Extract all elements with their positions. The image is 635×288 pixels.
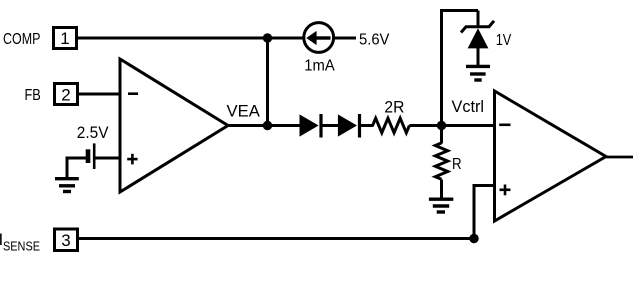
diode D2 [338,114,360,138]
svg-text:2R: 2R [384,99,404,117]
zener diode D3 triangle [468,28,489,48]
battery V1 2.5V positive plate [93,143,96,169]
wire ISENSE to op-amp U2 plus input [79,237,474,240]
wire op-amp U2 output [606,156,633,159]
wire zener anode to ground [477,48,480,65]
op-amp U1 error amplifier triangle [120,59,228,192]
battery V1 negative plate [86,149,91,163]
node junction dot ISENSE [469,234,478,243]
wire FB to op-amp inverting input [79,93,120,96]
wire VEA output to diode D1 [226,124,301,127]
pin label ISENSE [0,230,40,253]
wire COMP to current source [78,37,303,40]
svg-text:2.5V: 2.5V [77,124,109,142]
wire battery to ground [67,158,87,178]
svg-text:5.6V: 5.6V [359,32,390,49]
wire Vctrl down to resistor R [440,126,443,144]
svg-text:1: 1 [60,29,69,48]
node junction dot VEA [263,121,272,130]
current source I1 arrow [306,31,330,45]
wire R to ground [440,180,443,199]
svg-text:2: 2 [61,86,70,105]
pin 2 box [55,84,78,105]
svg-text:1V: 1V [496,32,512,49]
svg-text:R: R [452,156,462,173]
pin 3 box [55,229,78,251]
zener diode D3 cathode bar [461,21,494,33]
svg-text:SENSE: SENSE [3,239,40,254]
wire node down to VEA output [266,38,269,126]
wire op-amp U2 plus input down to ISENSE line [474,186,495,239]
svg-text:3: 3 [61,231,70,250]
current source I1 circle [304,23,334,53]
node junction dot Vctrl [437,121,446,130]
wire D2 to resistor 2R [360,124,374,127]
wire D1 to D2 [321,124,339,127]
svg-text:FB: FB [25,87,41,104]
svg-text:COMP: COMP [3,31,40,48]
op-amp U2 minus sign [499,124,510,127]
pin 1 box [54,28,77,49]
ground under zener [466,66,490,80]
op-amp U1 minus sign [128,92,138,95]
wire 2R to Vctrl node and op-amp U2 minus input [409,124,495,127]
svg-text:Vctrl: Vctrl [452,98,485,116]
wire current source to 5.6V [334,37,356,40]
svg-text:1mA: 1mA [304,58,335,75]
svg-text:VEA: VEA [227,102,261,121]
resistor R zigzag [435,143,447,179]
wire zener cathode lead [477,11,480,28]
op-amp U2 comparator triangle [495,91,607,221]
diode D1 [300,114,322,138]
op-amp U2 plus sign [500,185,511,196]
node junction dot COMP/VEA [263,33,272,42]
ground under R [429,199,453,212]
resistor 2R zigzag [373,118,410,133]
wire battery to op-amp plus input [94,157,120,160]
ground under battery [55,179,79,192]
op-amp U1 plus sign [127,154,137,165]
wire Vctrl up and over to zener [442,11,479,126]
